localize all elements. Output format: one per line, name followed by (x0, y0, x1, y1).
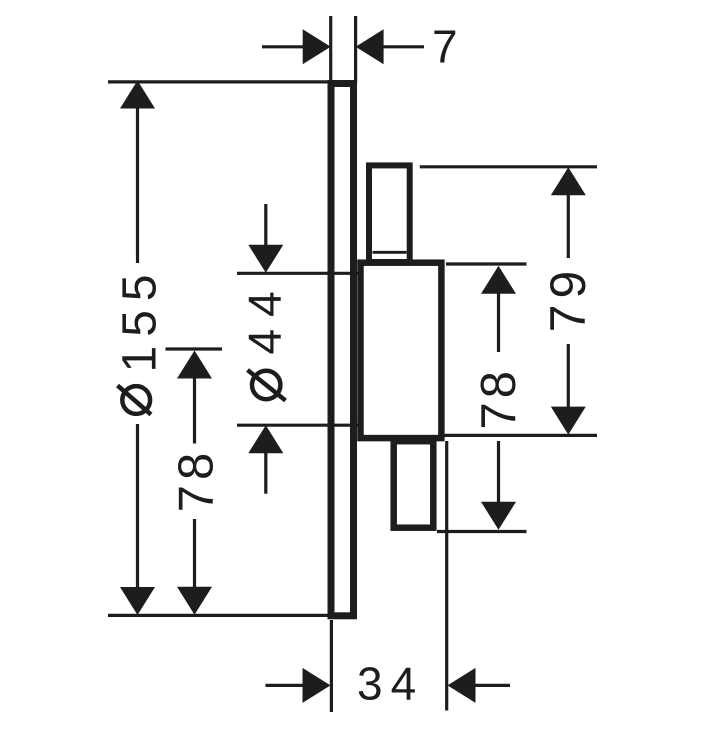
78 left tick line (166, 347, 223, 350)
D44 lower pointer line (264, 452, 267, 494)
ext line bottom of plate horizontal (shared) (108, 614, 328, 617)
upper stem rectangle (body drawn later overlaps its bottom) (369, 165, 410, 262)
arrow D44 bottom (points up) (248, 425, 283, 453)
arrow 79 top (points up) (551, 167, 586, 195)
svg-text:34: 34 (357, 658, 424, 710)
D155 dim line upper segment (136, 106, 139, 263)
arrow 78R top (points up) (481, 266, 516, 294)
D44 top ext line (237, 272, 360, 275)
svg-text:78: 78 (472, 367, 526, 430)
ext line top-left of plate (329, 16, 332, 83)
arrow 78R bottom (points down) (481, 502, 516, 530)
arrow 7 left (points right) (303, 29, 331, 64)
svg-text:44: 44 (239, 279, 291, 354)
dim 7 line left tail (262, 45, 305, 48)
D155 dim line lower segment (136, 424, 139, 589)
svg-text:7: 7 (432, 21, 458, 73)
arrow 34 left (points right) (303, 668, 331, 703)
diameter symbol of label &#216;44 (248, 370, 286, 401)
78R dim line upper segment (497, 292, 500, 352)
34 left ext line (330, 620, 333, 712)
arrow 78L top (points up) (177, 351, 212, 379)
arrow D155 bottom (points down) (120, 587, 155, 615)
main body rectangle (361, 263, 442, 438)
diameter symbol of label &#216;155 (118, 386, 152, 415)
34 right ext line (445, 441, 448, 711)
arrow 7 right (points left) (356, 29, 384, 64)
dim 7 line right tail (381, 45, 424, 48)
ext line body bottom right (79 bottom) (440, 434, 597, 437)
79 dim line upper segment (567, 194, 570, 259)
D44 upper pointer line (264, 204, 267, 246)
78 left dim line upper segment (193, 377, 196, 444)
ext line top-right of plate (354, 16, 357, 84)
arrow 34 right (points left) (448, 668, 476, 703)
ext line body top right (78R top) (446, 262, 527, 265)
arrowheads (120, 29, 586, 703)
lower stem rectangle (394, 441, 434, 528)
faceplate (tall thin rectangle, side view) (331, 84, 354, 616)
34 dim line right tail (474, 684, 510, 687)
svg-text:155: 155 (114, 265, 167, 372)
arrow D44 top (points down) (248, 245, 283, 273)
34 dim line left tail (266, 684, 306, 687)
79 dim line lower segment (567, 344, 570, 410)
upper stem inner flange line (373, 251, 407, 254)
arrow D155 top (points up) (120, 81, 155, 109)
78R dim line lower segment (497, 441, 500, 504)
D44 bottom ext line (237, 424, 362, 427)
ext line stem top right (79 top) (420, 165, 597, 168)
arrow 79 bottom (points down) (551, 407, 586, 435)
svg-text:79: 79 (540, 265, 596, 333)
ext line lower stem bottom right (78R bottom) (437, 530, 527, 533)
arrow 78L bottom (points down) (177, 587, 212, 615)
thin dimension / extension lines (108, 16, 597, 712)
ext line top of plate horizontal (D155 top) (108, 80, 328, 83)
svg-text:78: 78 (170, 448, 224, 513)
78 left dim line lower segment (193, 519, 196, 588)
